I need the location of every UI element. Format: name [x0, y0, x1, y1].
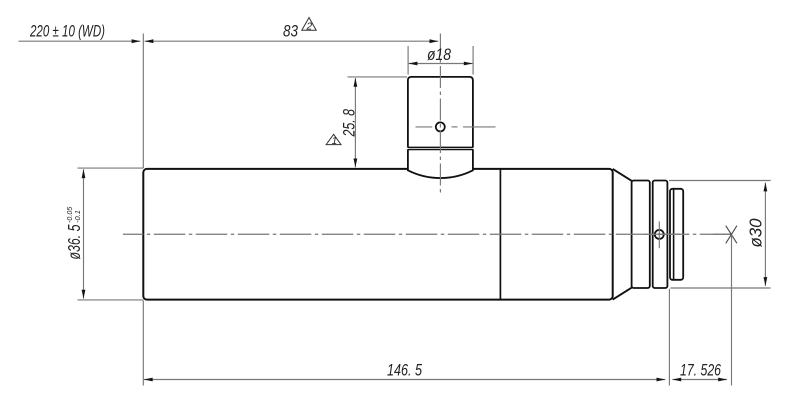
svg-text:17. 526: 17. 526: [680, 360, 721, 379]
ring 3 step line: [673, 189, 675, 280]
dim diam30 line: [764, 183, 766, 286]
dim 17.526 right arrow: [718, 378, 727, 382]
dim diam36.5 top extension: [78, 167, 144, 169]
dim diam36.5 top arrow: [82, 169, 86, 178]
dim 220 line: [19, 40, 141, 42]
ring 3 C-mount barrel: [670, 189, 683, 280]
dim diam18 extension right: [472, 46, 474, 75]
ring 2 (diam 30): [653, 181, 668, 289]
label diam 36.5 with tolerance: [64, 206, 84, 260]
dim 17.526 left arrow: [672, 378, 681, 382]
dim diam18 line: [409, 63, 473, 65]
wire screw 2 vertical centerline: [658, 221, 660, 248]
dim 146.5 left arrow: [144, 378, 153, 382]
boss cylinder bottom edge: [408, 146, 473, 148]
dim 146.5 right arrow: [657, 378, 666, 382]
chamfer bottom: [613, 288, 632, 300]
extension line focal plane: [731, 235, 733, 386]
svg-text:83: 83: [283, 22, 298, 41]
wire main horizontal centerline: [123, 233, 731, 235]
extension line rear flange face: [668, 289, 670, 386]
dim 25.8 top arrow: [354, 78, 358, 87]
svg-text:25. 8: 25. 8: [341, 108, 359, 137]
svg-text:146. 5: 146. 5: [387, 360, 422, 379]
dim diam30 top extension: [669, 180, 771, 182]
dim diam36.5 line: [83, 169, 85, 298]
dim diam18 extension left: [407, 46, 409, 75]
svg-text:ø18: ø18: [427, 45, 451, 64]
wire centerline solid segment at focal mark: [713, 233, 731, 235]
boss flange top edge: [408, 149, 473, 151]
dim diam18 left arrow: [409, 62, 418, 66]
flag note triangle 1: [326, 134, 341, 147]
svg-text:ø30: ø30: [746, 218, 766, 247]
ring 1: [632, 181, 650, 289]
X focal plane mark: [726, 226, 737, 244]
boss set screw circle: [436, 122, 445, 131]
svg-text:220 ± 10 (WD): 220 ± 10 (WD): [29, 22, 105, 41]
main tube body: [143, 169, 612, 300]
wire boss horizontal centerline dash c: [463, 126, 496, 128]
boss upper cylinder: [408, 77, 473, 148]
dim 146.5 line: [144, 379, 665, 381]
dim 25.8 top extension: [348, 76, 408, 78]
dim diam30 bottom extension: [671, 287, 771, 289]
dim diam30 bottom arrow: [764, 277, 768, 286]
boss flange: [408, 149, 473, 178]
dim diam30 top arrow: [764, 183, 768, 192]
dim diam18 right arrow: [464, 62, 473, 66]
svg-text:2: 2: [306, 21, 313, 32]
dim 17.526 line: [672, 379, 727, 381]
extension line front face vertical: [142, 34, 144, 386]
svg-text:-0.1: -0.1: [73, 210, 82, 223]
svg-text:ø36. 5: ø36. 5: [64, 224, 84, 259]
dim 83 left arrow: [145, 39, 154, 43]
flag note triangle 2: [302, 18, 316, 33]
wire boss vertical centerline: [439, 34, 441, 193]
svg-text:1: 1: [332, 136, 338, 147]
screw circle on ring 2: [655, 230, 664, 239]
wire centerline solid segment through rear screw: [645, 233, 680, 235]
dim 83 line: [145, 40, 439, 42]
wire boss horizontal centerline dash a: [416, 126, 433, 128]
dim diam36.5 bottom extension: [78, 299, 144, 301]
dim 25.8 bottom arrow: [354, 159, 358, 168]
dim diam36.5 bottom arrow: [82, 290, 86, 299]
dim 83 right arrow: [430, 39, 439, 43]
dim 25.8 line: [354, 78, 356, 167]
body joint line: [499, 169, 501, 300]
chamfer top: [613, 169, 632, 181]
dim 220 arrow: [132, 39, 141, 43]
wire boss horizontal centerline dash b: [452, 126, 458, 128]
